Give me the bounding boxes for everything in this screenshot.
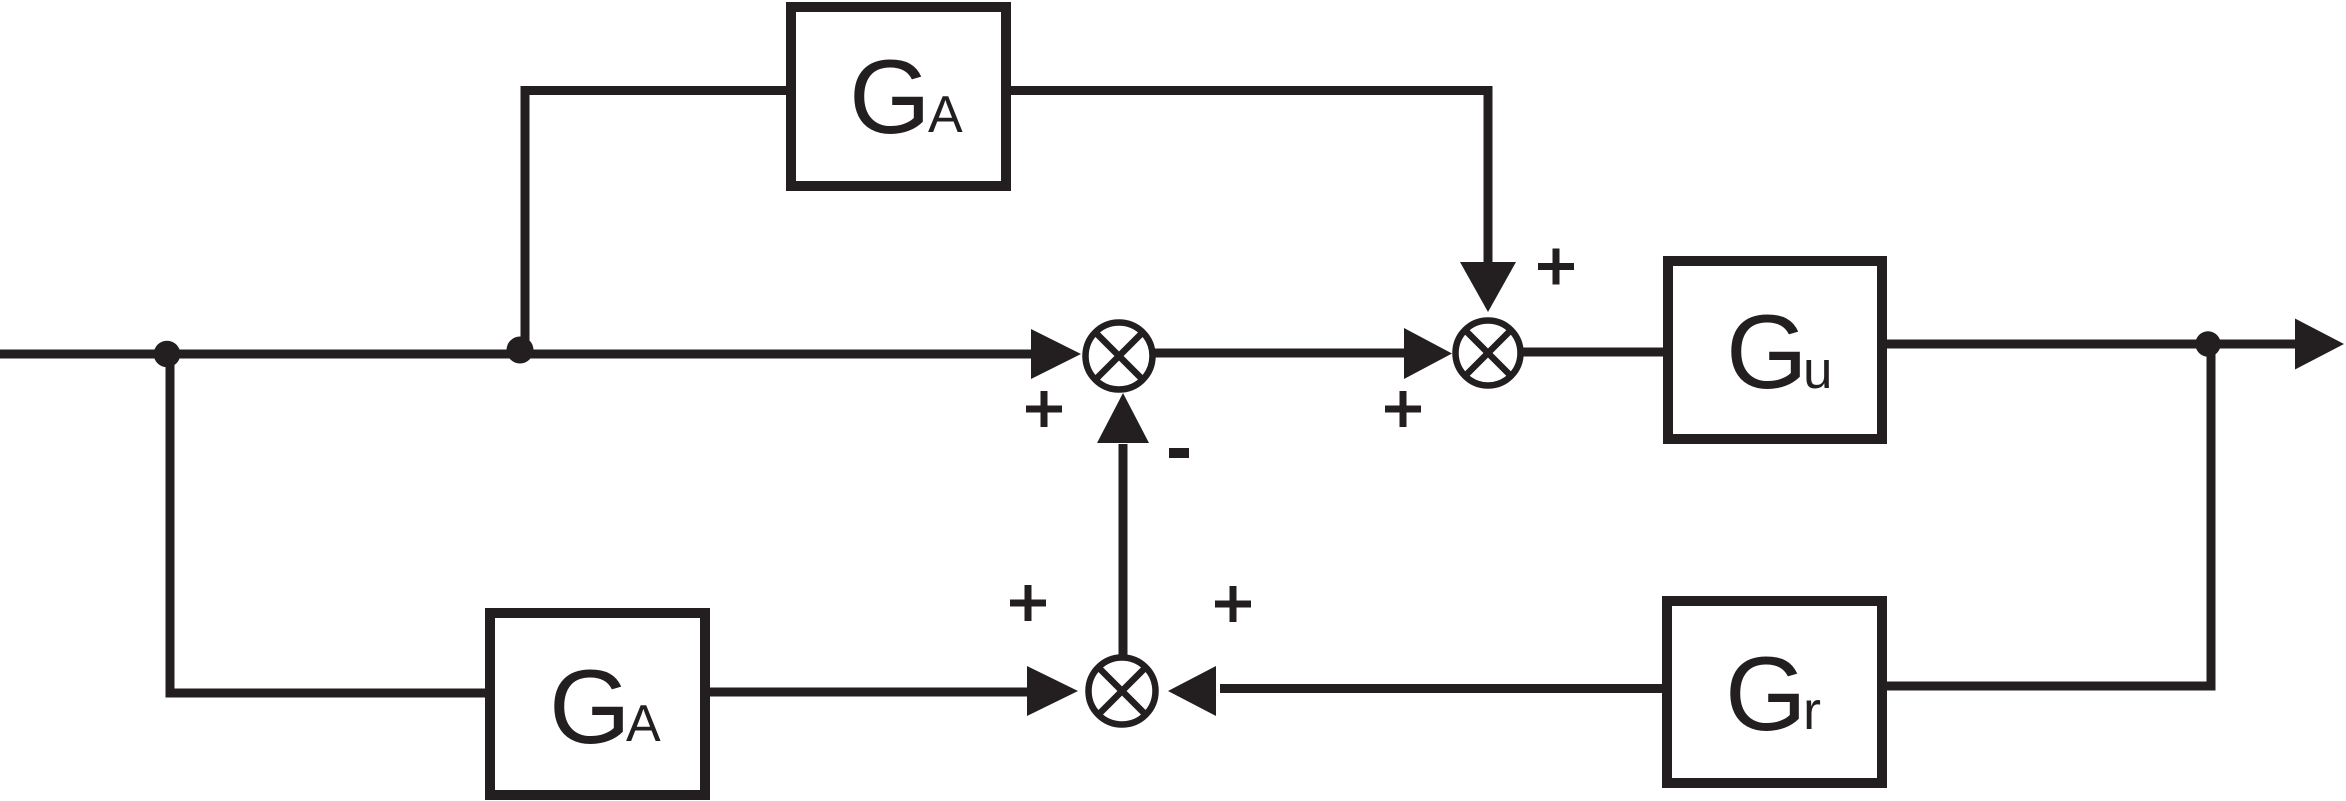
node output takeoff junction dot bbox=[2195, 331, 2220, 356]
wire GA bottom output to S3 bbox=[708, 688, 1032, 697]
summing junction S3 bbox=[1089, 658, 1156, 725]
node riser takeoff junction dot bbox=[507, 337, 534, 364]
arrowhead into S3 from left bbox=[1027, 666, 1078, 716]
block Gr box bbox=[1667, 601, 1882, 783]
svg-text:A: A bbox=[626, 695, 661, 753]
wire S3 up to S1 bbox=[1119, 444, 1128, 657]
sign plus at S3 right bbox=[1215, 586, 1251, 622]
arrowhead output right bbox=[2295, 319, 2344, 370]
sign plus at S3 left bbox=[1010, 585, 1046, 621]
svg-text:G: G bbox=[849, 39, 931, 156]
wire S1 to S2 bbox=[1152, 349, 1408, 358]
sign plus at S1 left bbox=[1026, 391, 1062, 427]
svg-text:G: G bbox=[1726, 294, 1808, 411]
svg-text:G: G bbox=[549, 649, 631, 766]
wire left takeoff leg down and right to GA bottom bbox=[170, 354, 490, 693]
arrowhead into S1 from left bbox=[1031, 329, 1081, 379]
label Gr bbox=[1725, 636, 1821, 753]
label GA bottom bbox=[549, 649, 661, 766]
block GA bottom box bbox=[490, 613, 705, 795]
svg-text:u: u bbox=[1803, 341, 1832, 400]
node input takeoff junction dot bbox=[154, 341, 181, 368]
svg-text:A: A bbox=[928, 86, 963, 144]
sign plus at S2 top bbox=[1538, 249, 1574, 285]
block GA top box bbox=[791, 7, 1006, 186]
arrowhead into S2 from left bbox=[1404, 328, 1452, 379]
arrowhead into S3 from right bbox=[1168, 666, 1216, 716]
block Gu box bbox=[1668, 261, 1882, 439]
wire feedback down right side into Gr bbox=[1885, 344, 2211, 686]
svg-text:G: G bbox=[1725, 636, 1807, 753]
summing junction S1 bbox=[1086, 323, 1153, 390]
wire riser to top GA bbox=[525, 91, 791, 355]
sign plus at S2 left bbox=[1385, 391, 1421, 427]
label GA top bbox=[849, 39, 963, 156]
label Gu bbox=[1726, 294, 1832, 411]
svg-text:r: r bbox=[1803, 681, 1821, 741]
wire Gr output to S3 bbox=[1220, 684, 1668, 693]
sign minus at S1 bottom right bbox=[1169, 448, 1189, 458]
wire Gu output to right arrow bbox=[1885, 340, 2297, 349]
arrowhead into S2 from top bbox=[1460, 262, 1516, 312]
summing junction S2 bbox=[1456, 321, 1521, 386]
wire S2 to Gu bbox=[1520, 348, 1668, 357]
wire GA top output to corner and down into S2 bbox=[1006, 91, 1488, 265]
arrowhead into S1 from bottom bbox=[1097, 393, 1149, 443]
wire main input line bbox=[0, 350, 1036, 359]
